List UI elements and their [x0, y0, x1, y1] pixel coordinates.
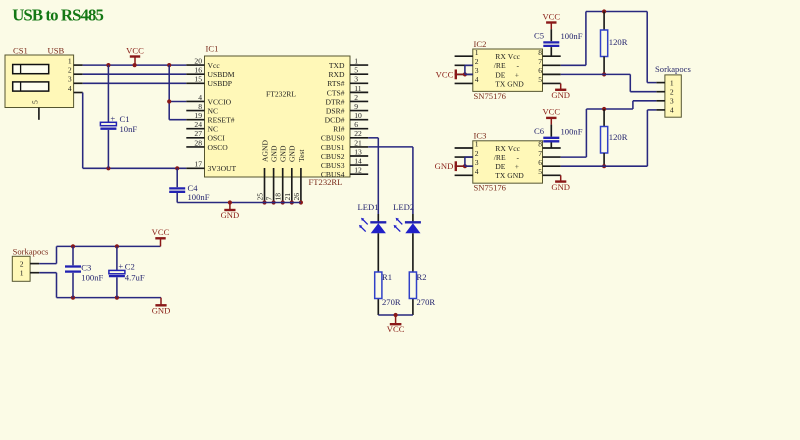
- svg-text:VCC: VCC: [126, 45, 144, 55]
- svg-text:GND: GND: [507, 171, 524, 180]
- svg-text:DE: DE: [495, 162, 505, 171]
- svg-text:NC: NC: [208, 106, 219, 115]
- svg-text:2: 2: [354, 93, 358, 102]
- svg-text:22: 22: [354, 129, 362, 138]
- svg-text:CBUS3: CBUS3: [321, 161, 345, 170]
- svg-text:+: +: [118, 261, 123, 271]
- svg-text:8: 8: [198, 102, 202, 111]
- svg-text:7: 7: [265, 197, 274, 201]
- svg-text:USB to RS485: USB to RS485: [12, 6, 103, 25]
- svg-text:100nF: 100nF: [561, 31, 583, 41]
- svg-text:SN75176: SN75176: [474, 91, 507, 101]
- svg-text:C6: C6: [534, 126, 545, 136]
- svg-text:11: 11: [354, 84, 362, 93]
- svg-text:DTR#: DTR#: [326, 97, 345, 106]
- svg-text:4: 4: [670, 106, 674, 115]
- svg-text:100nF: 100nF: [188, 192, 210, 202]
- svg-text:3: 3: [670, 97, 674, 106]
- svg-text:DSR#: DSR#: [326, 106, 345, 115]
- svg-text:26: 26: [292, 193, 301, 201]
- svg-text:14: 14: [354, 156, 362, 165]
- svg-text:VCC: VCC: [152, 227, 170, 237]
- svg-text:DE: DE: [495, 70, 505, 79]
- svg-text:/RE: /RE: [494, 61, 506, 70]
- svg-text:GND: GND: [507, 79, 524, 88]
- svg-text:5: 5: [538, 167, 542, 176]
- svg-text:5: 5: [31, 100, 40, 104]
- svg-text:4: 4: [475, 75, 479, 84]
- svg-text:GND: GND: [270, 145, 279, 162]
- svg-text:SN75176: SN75176: [474, 183, 507, 193]
- svg-text:2: 2: [670, 87, 674, 96]
- svg-text:6: 6: [538, 158, 542, 167]
- svg-text:LED2: LED2: [393, 202, 414, 212]
- svg-text:21: 21: [354, 138, 362, 147]
- svg-text:Test: Test: [297, 149, 306, 162]
- svg-text:VCCIO: VCCIO: [208, 97, 232, 106]
- svg-text:15: 15: [194, 75, 202, 84]
- svg-text:5: 5: [354, 66, 358, 75]
- svg-text:9: 9: [354, 102, 358, 111]
- svg-text:270R: 270R: [417, 297, 436, 307]
- svg-text:VCC: VCC: [436, 69, 454, 79]
- svg-text:4: 4: [68, 84, 72, 93]
- svg-text:CS1: CS1: [13, 46, 28, 56]
- svg-text:TX: TX: [495, 79, 506, 88]
- svg-text:27: 27: [194, 129, 202, 138]
- svg-text:RTS#: RTS#: [327, 79, 344, 88]
- svg-text:TX: TX: [495, 171, 506, 180]
- svg-text:CBUS4: CBUS4: [321, 170, 345, 179]
- svg-text:VCC: VCC: [542, 11, 560, 21]
- svg-text:RXD: RXD: [328, 70, 345, 79]
- svg-text:Sorkapocs: Sorkapocs: [13, 246, 49, 256]
- svg-text:7: 7: [538, 57, 542, 66]
- svg-text:25: 25: [256, 193, 265, 201]
- svg-text:4: 4: [475, 167, 479, 176]
- svg-text:Sorkapocs: Sorkapocs: [655, 64, 691, 74]
- svg-text:RX: RX: [495, 52, 506, 61]
- svg-text:10nF: 10nF: [120, 124, 138, 134]
- svg-text:GND: GND: [152, 306, 171, 316]
- svg-text:C1: C1: [120, 114, 130, 124]
- svg-text:20: 20: [194, 57, 202, 66]
- svg-text:+: +: [515, 162, 519, 171]
- svg-text:21: 21: [283, 193, 292, 201]
- svg-text:VCC: VCC: [387, 324, 405, 334]
- svg-text:2: 2: [20, 259, 24, 268]
- svg-text:CBUS2: CBUS2: [321, 152, 345, 161]
- svg-text:VCC: VCC: [542, 107, 560, 117]
- svg-text:FT232RL: FT232RL: [266, 90, 296, 99]
- svg-text:4: 4: [198, 93, 202, 102]
- svg-text:4.7uF: 4.7uF: [125, 273, 145, 283]
- svg-text:/RE: /RE: [494, 153, 506, 162]
- svg-text:DCD#: DCD#: [325, 116, 345, 125]
- svg-text:18: 18: [274, 193, 283, 201]
- svg-text:+: +: [110, 113, 115, 123]
- svg-text:100nF: 100nF: [561, 127, 583, 137]
- svg-text:NC: NC: [208, 125, 219, 134]
- svg-text:USBDP: USBDP: [208, 79, 232, 88]
- svg-text:GND: GND: [221, 210, 240, 220]
- svg-text:C2: C2: [125, 262, 135, 272]
- svg-text:270R: 270R: [382, 297, 401, 307]
- svg-text:7: 7: [538, 149, 542, 158]
- svg-text:GND: GND: [279, 145, 288, 162]
- svg-text:13: 13: [354, 147, 362, 156]
- svg-text:R1: R1: [382, 272, 392, 282]
- svg-text:IC1: IC1: [206, 44, 219, 54]
- svg-text:GND: GND: [435, 161, 454, 171]
- svg-text:12: 12: [354, 166, 362, 175]
- svg-text:TXD: TXD: [329, 61, 345, 70]
- svg-text:1: 1: [354, 57, 358, 66]
- svg-text:3V3OUT: 3V3OUT: [208, 164, 237, 173]
- svg-text:CTS#: CTS#: [327, 88, 345, 97]
- svg-text:C5: C5: [534, 31, 544, 41]
- svg-text:8: 8: [538, 140, 542, 149]
- svg-text:C3: C3: [81, 262, 91, 272]
- svg-text:1: 1: [475, 48, 479, 57]
- svg-text:28: 28: [194, 138, 202, 147]
- svg-text:10: 10: [354, 111, 362, 120]
- svg-text:RESET#: RESET#: [208, 116, 235, 125]
- svg-text:120R: 120R: [609, 132, 628, 142]
- svg-text:RX: RX: [495, 144, 506, 153]
- svg-text:USB: USB: [48, 46, 65, 56]
- svg-text:R2: R2: [417, 272, 427, 282]
- svg-text:OSCO: OSCO: [208, 143, 229, 152]
- svg-text:+: +: [515, 70, 519, 79]
- svg-text:CBUS1: CBUS1: [321, 143, 345, 152]
- svg-text:1: 1: [475, 140, 479, 149]
- svg-text:6: 6: [538, 66, 542, 75]
- svg-text:Vcc: Vcc: [508, 52, 521, 61]
- svg-text:AGND: AGND: [260, 140, 269, 162]
- svg-text:GND: GND: [551, 182, 570, 192]
- svg-text:3: 3: [68, 75, 72, 84]
- svg-text:GND: GND: [551, 90, 570, 100]
- svg-text:8: 8: [538, 48, 542, 57]
- svg-text:5: 5: [538, 75, 542, 84]
- svg-text:LED1: LED1: [357, 202, 378, 212]
- svg-text:100nF: 100nF: [81, 272, 103, 282]
- svg-text:2: 2: [475, 57, 479, 66]
- svg-text:2: 2: [475, 149, 479, 158]
- svg-text:3: 3: [354, 75, 358, 84]
- svg-text:3: 3: [475, 158, 479, 167]
- svg-text:CBUS0: CBUS0: [321, 134, 345, 143]
- svg-text:3: 3: [475, 66, 479, 75]
- svg-text:2: 2: [68, 66, 72, 75]
- svg-text:24: 24: [194, 120, 202, 129]
- svg-text:16: 16: [194, 66, 202, 75]
- svg-text:6: 6: [354, 120, 358, 129]
- svg-text:GND: GND: [288, 145, 297, 162]
- svg-text:1: 1: [20, 268, 24, 277]
- svg-text:Vcc: Vcc: [508, 144, 521, 153]
- svg-text:1: 1: [670, 78, 674, 87]
- svg-text:Vcc: Vcc: [208, 61, 221, 70]
- svg-text:OSCI: OSCI: [208, 134, 226, 143]
- svg-text:RI#: RI#: [333, 125, 345, 134]
- svg-text:USBDM: USBDM: [208, 70, 235, 79]
- svg-text:1: 1: [68, 57, 72, 66]
- svg-text:120R: 120R: [609, 37, 628, 47]
- svg-text:17: 17: [194, 160, 202, 169]
- svg-text:19: 19: [194, 111, 202, 120]
